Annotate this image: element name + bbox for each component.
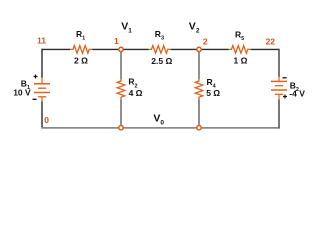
value 2 ohm: [74, 56, 88, 66]
node 2: [203, 37, 208, 47]
svg-text:-4 V: -4 V: [289, 89, 305, 99]
value 2.5 ohm: [151, 56, 172, 66]
battery B1: [34, 78, 50, 102]
value -4 V: [289, 89, 305, 99]
svg-text:22: 22: [266, 37, 276, 47]
wire branch 2 lower (R4 to bottom rail): [198, 100, 200, 128]
svg-text:2 Ω: 2 Ω: [74, 56, 88, 66]
wire right rail upper (node 22 down to battery B2): [278, 49, 280, 77]
svg-text:10 V: 10 V: [13, 87, 31, 97]
svg-text:0: 0: [44, 115, 49, 125]
resistor R5: [229, 46, 251, 54]
wire left rail lower (battery B1 to node 0): [41, 102, 43, 129]
svg-text:1: 1: [114, 36, 119, 46]
resistor R1: [70, 46, 92, 54]
battery B2: [271, 77, 287, 100]
wire branch 1 lower (R2 to bottom rail): [120, 100, 122, 128]
resistor R3: [149, 46, 171, 54]
wire branch 1 upper (node 1 down to R2): [120, 49, 122, 78]
label B2: [290, 80, 299, 93]
wire top rail left segment (node 11 to R1): [42, 48, 70, 50]
wire top rail R1 to node 1: [92, 48, 121, 50]
svg-text:1 Ω: 1 Ω: [234, 56, 248, 66]
wire top rail R3 to node 2: [171, 48, 199, 50]
label R5: [235, 29, 244, 42]
junction node 1 circle: [119, 47, 123, 51]
battery B2 minus sign: [283, 77, 287, 79]
battery B1 minus sign: [33, 98, 37, 100]
value 1 ohm: [234, 56, 248, 66]
svg-text:V0: V0: [153, 113, 164, 127]
svg-text:V2: V2: [189, 21, 200, 35]
wire top rail R5 to node 22: [251, 48, 279, 50]
label R1: [76, 29, 85, 42]
value 4 ohm: [129, 88, 143, 98]
wire top rail node 1 to R3: [121, 48, 149, 50]
label V1: [121, 20, 132, 34]
battery B1 plus sign: [34, 75, 38, 79]
value 5 ohm: [206, 88, 220, 98]
label R3: [155, 29, 164, 42]
label R4: [207, 77, 217, 90]
node 22: [266, 37, 276, 47]
node 11: [37, 35, 46, 45]
label R2: [128, 77, 137, 90]
junction bottom below node 1 circle: [119, 126, 123, 130]
battery B2 plus sign: [283, 95, 287, 99]
junction node 2 circle: [197, 47, 201, 51]
resistor R4: [195, 79, 203, 100]
junction bottom below node 2 circle: [197, 126, 201, 130]
wire right rail lower (battery B2 to bottom rail): [278, 100, 280, 129]
wire bottom rail V0: [41, 127, 279, 129]
svg-text:R1: R1: [76, 29, 85, 42]
svg-text:11: 11: [37, 35, 46, 45]
svg-text:R3: R3: [155, 29, 164, 42]
svg-text:V1: V1: [121, 20, 132, 34]
wire branch 2 upper (node 2 down to R4): [198, 49, 200, 78]
svg-text:5 Ω: 5 Ω: [206, 88, 220, 98]
svg-text:R5: R5: [235, 29, 244, 42]
label V2: [189, 21, 200, 35]
svg-text:2.5 Ω: 2.5 Ω: [151, 56, 172, 66]
wire top rail node 2 to R5: [199, 48, 229, 50]
value 10 V: [13, 87, 31, 97]
svg-text:4 Ω: 4 Ω: [129, 88, 143, 98]
resistor R2: [117, 79, 125, 100]
label V0: [153, 113, 164, 127]
svg-text:2: 2: [203, 37, 208, 47]
node 0: [44, 115, 49, 125]
node 1: [114, 36, 119, 46]
wire left rail upper (node 11 down to battery B1): [41, 49, 43, 78]
label B1: [21, 78, 30, 91]
